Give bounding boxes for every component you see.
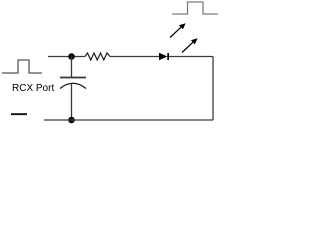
capacitor C1	[60, 77, 86, 89]
wire resistor to LED	[110, 56, 159, 58]
LED emission arrow 1	[170, 23, 186, 37]
RCX port return terminal dash	[11, 113, 27, 115]
LED emission arrow 2	[182, 38, 198, 52]
wire right side	[212, 57, 214, 121]
wire capacitor bottom lead	[71, 84, 73, 120]
wire top left (port to resistor)	[48, 56, 85, 58]
output pulse waveform (IR light)	[172, 2, 218, 14]
wire LED to right corner	[169, 56, 213, 58]
svg-text:RCX Port: RCX Port	[12, 83, 54, 94]
resistor	[85, 53, 110, 60]
wire bottom return	[44, 119, 213, 121]
node junction dot bottom	[68, 117, 75, 124]
LED D1 anode triangle	[159, 53, 168, 60]
LED D1 cathode bar	[167, 53, 169, 60]
wire capacitor top lead	[71, 57, 73, 78]
node junction dot top	[68, 53, 75, 60]
label RCX Port	[12, 83, 54, 94]
input pulse waveform (RCX port signal)	[2, 60, 42, 73]
